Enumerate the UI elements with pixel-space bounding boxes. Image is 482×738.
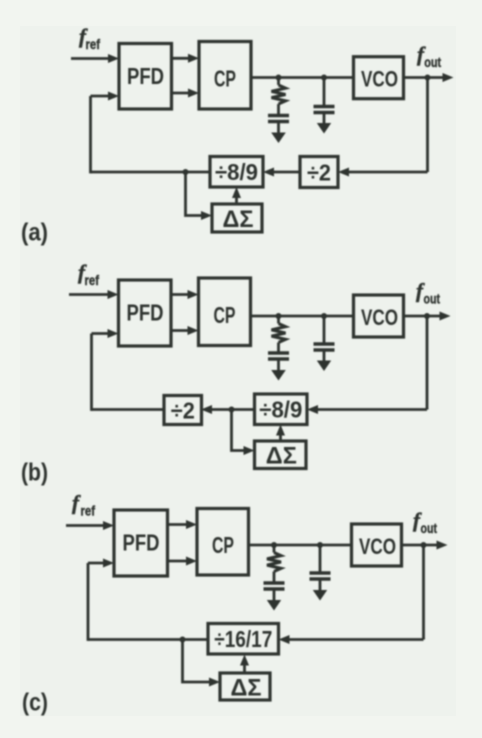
wire /16-17 output to PFD feedback (c) [88, 638, 208, 641]
svg-text:÷16/17: ÷16/17 [214, 626, 272, 652]
block PFD U1 (c) [114, 510, 168, 576]
svg-text:VCO: VCO [361, 67, 398, 92]
svg-text:÷8/9: ÷8/9 [215, 159, 258, 185]
wire feedback to divide-by-2 with arrow (a) [338, 168, 428, 177]
wire delta-sigma control to /8-9 with arrow (a) [232, 187, 241, 204]
net f_out label (b) [416, 279, 440, 307]
block delta-sigma modulator U6 (b) [255, 441, 307, 469]
net f_ref label (a) [79, 24, 100, 52]
svg-text:(b): (b) [21, 459, 48, 487]
svg-text:PFD: PFD [127, 300, 164, 326]
svg-text:ref: ref [85, 272, 100, 288]
wire PFD DN output to CP (b) [171, 326, 199, 335]
svg-text:out: out [424, 54, 441, 70]
wire feedback into PFD with arrow (a) [91, 92, 120, 101]
wire f_ref input with arrow into PFD pin (a) [71, 54, 119, 63]
wire f_ref input with arrow into PFD pin (c) [66, 521, 114, 530]
block PFD U1 (b) [119, 280, 172, 346]
wire feedback left vertical (b) [90, 334, 93, 411]
svg-text:PFD: PFD [127, 63, 164, 89]
block delta-sigma modulator U6 (a) [212, 204, 262, 233]
block CP U2 (c) [197, 509, 249, 576]
wire node2 to capacitor C2 (b) [323, 316, 326, 344]
wire feedback vertical from f_out node (c) [422, 545, 425, 640]
wire feedback to /16-17 with arrow (c) [279, 635, 424, 644]
net f_ref label (b) [78, 260, 99, 288]
svg-text:out: out [421, 520, 438, 536]
capacitor C2 (b) [314, 344, 335, 350]
svg-text:CP: CP [214, 302, 236, 328]
wire /8-9 output to /2 with arrow (b) [201, 405, 255, 414]
node loop-filter junction 1 (b) [276, 313, 282, 319]
wire tap down and into delta-sigma with arrow (b) [232, 410, 255, 456]
wire delta-sigma control to /8-9 with arrow (b) [276, 425, 285, 442]
wire PFD UP output to CP (c) [168, 520, 198, 529]
wire resistor to capacitor C1 (b) [277, 343, 280, 354]
capacitor C2 (c) [310, 573, 331, 579]
svg-text:VCO: VCO [361, 305, 398, 330]
ground below C1 (b) [271, 359, 286, 381]
wire feedback vertical from f_out node (b) [426, 316, 429, 410]
capacitor C1 (a) [268, 116, 289, 122]
block dual-modulus divider /16-17 U4 (c) [208, 624, 279, 655]
block delta-sigma modulator U6 (c) [220, 673, 270, 701]
wire feedback vertical from f_out node (a) [426, 78, 429, 173]
svg-text:ref: ref [86, 36, 101, 52]
wire node1 to resistor (a) [277, 78, 280, 86]
wire VCO to f_out with arrow (b) [404, 312, 451, 321]
node loop-filter junction 1 (a) [276, 75, 282, 81]
node loop-filter junction 2 (c) [317, 542, 323, 548]
ground below C2 (b) [317, 350, 331, 371]
svg-text:÷2: ÷2 [171, 398, 195, 424]
wire /2 output to /8-9 with arrow (a) [263, 168, 300, 177]
wire tap down and into delta-sigma with arrow (a) [186, 172, 213, 220]
ground below C2 (c) [313, 579, 327, 601]
block VCO U3 (b) [354, 295, 404, 337]
resistor R1 loop filter (c) [267, 553, 281, 572]
wire resistor to capacitor C1 (a) [277, 104, 280, 116]
wire CP output to VCO input (b) [251, 315, 354, 318]
ground below C1 (c) [267, 589, 281, 611]
label (a) [21, 219, 48, 247]
svg-text:CP: CP [212, 532, 234, 558]
node f_out junction (c) [421, 542, 427, 548]
block PFD U1 (a) [119, 44, 172, 110]
svg-text:PFD: PFD [123, 530, 160, 556]
net f_out label (a) [417, 42, 441, 70]
wire CP output to VCO input (c) [249, 544, 352, 547]
svg-text:VCO: VCO [359, 534, 396, 559]
svg-text:ΔΣ: ΔΣ [231, 674, 262, 701]
wire PFD UP output to CP (a) [172, 54, 200, 63]
svg-text:ref: ref [81, 503, 96, 519]
node delta-sigma tap junction (c) [180, 637, 186, 643]
wire /8-9 output to PFD feedback (a) [91, 171, 211, 174]
capacitor C1 (c) [264, 583, 285, 589]
label (c) [22, 689, 48, 717]
node delta-sigma tap junction (a) [183, 169, 189, 175]
block VCO U3 (c) [352, 524, 402, 566]
node loop-filter junction 2 (b) [321, 313, 327, 319]
block CP U2 (b) [199, 278, 251, 346]
svg-text:CP: CP [214, 66, 236, 92]
wire node2 to capacitor C2 (c) [319, 545, 322, 573]
svg-text:(a): (a) [21, 219, 48, 247]
wire PFD DN output to CP (a) [172, 89, 200, 98]
wire delta-sigma control to /16-17 with arrow (c) [240, 655, 249, 674]
wire CP output to VCO input (a) [251, 76, 354, 79]
node loop-filter junction 2 (a) [321, 75, 327, 81]
block VCO U3 (a) [354, 57, 404, 99]
wire VCO to f_out with arrow (c) [402, 541, 448, 550]
node f_out junction (a) [425, 75, 431, 81]
svg-text:ΔΣ: ΔΣ [266, 442, 297, 469]
ground below C1 (a) [271, 122, 286, 144]
wire node2 to capacitor C2 (a) [323, 78, 326, 107]
net f_out label (c) [413, 508, 437, 536]
wire /2 output to PFD feedback (b) [92, 408, 165, 411]
block dual-modulus divider /8-9 U4 (a) [210, 157, 263, 188]
wire feedback into PFD with arrow (c) [88, 559, 114, 568]
label (b) [21, 459, 48, 487]
wire feedback left vertical (c) [87, 563, 90, 641]
net f_ref label (c) [72, 491, 95, 519]
ground below C2 (a) [317, 113, 331, 134]
wire resistor to capacitor C1 (c) [273, 572, 276, 584]
wire PFD UP output to CP (b) [171, 290, 199, 299]
block divider /2 U5 (b) [164, 396, 202, 425]
wire tap down and into delta-sigma with arrow (c) [183, 640, 221, 687]
node delta-sigma tap junction (b) [229, 407, 235, 413]
resistor R1 loop filter (b) [272, 324, 286, 343]
wire node1 to resistor (b) [277, 316, 280, 324]
svg-text:out: out [424, 291, 441, 307]
svg-text:ΔΣ: ΔΣ [223, 206, 254, 233]
block CP U2 (a) [199, 42, 251, 110]
wire VCO to f_out with arrow (a) [404, 73, 454, 82]
svg-text:(c): (c) [22, 689, 48, 717]
block dual-modulus divider /8-9 U4 (b) [255, 394, 308, 425]
wire feedback to /8-9 with arrow (b) [307, 405, 427, 414]
svg-text:÷2: ÷2 [307, 160, 331, 186]
node loop-filter junction 1 (c) [271, 542, 277, 548]
svg-text:÷8/9: ÷8/9 [259, 397, 302, 423]
capacitor C2 (a) [314, 107, 335, 113]
block divider /2 U5 (a) [300, 157, 338, 188]
wire PFD DN output to CP (c) [168, 557, 198, 566]
capacitor C1 (b) [268, 353, 289, 359]
node f_out junction (b) [424, 313, 430, 319]
wire feedback left vertical (a) [89, 96, 92, 173]
resistor R1 loop filter (a) [272, 85, 286, 104]
wire node1 to resistor (c) [273, 545, 276, 553]
wire feedback into PFD with arrow (b) [92, 329, 119, 338]
wire f_ref input with arrow into PFD pin (b) [69, 290, 119, 299]
